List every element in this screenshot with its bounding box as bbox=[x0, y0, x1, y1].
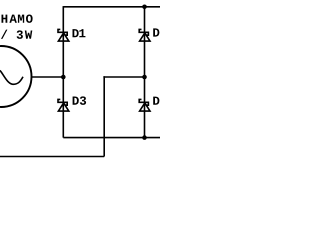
diode D1 bbox=[58, 29, 69, 41]
wire bottom rail DC- bbox=[63, 137, 160, 139]
diode D2 bbox=[139, 29, 150, 41]
wire AC2 riser bbox=[103, 76, 105, 156]
wire AC2 horizontal to right leg bbox=[103, 76, 144, 78]
junction top rail / right leg bbox=[142, 5, 147, 10]
wire AC2 bottom return bbox=[0, 156, 104, 158]
diode D3 bbox=[58, 99, 69, 111]
label D2 (cropped: D) bbox=[153, 28, 159, 36]
junction AC2 / right leg bbox=[142, 75, 147, 80]
label DYNAMO (cropped: HAMO) bbox=[2, 14, 33, 22]
label 6V / 3W (cropped: / 3W) bbox=[1, 30, 32, 39]
dynamo G1 bbox=[0, 46, 32, 107]
label D3 bbox=[73, 96, 87, 105]
diode D4 bbox=[139, 99, 150, 111]
junction bottom rail / right leg bbox=[142, 135, 147, 140]
label D4 (cropped: D) bbox=[153, 97, 159, 105]
wire top rail DC+ bbox=[63, 6, 160, 8]
label D1 bbox=[73, 29, 86, 37]
wire left bridge leg bbox=[62, 6, 64, 138]
wire dynamo to left leg (AC1) bbox=[32, 76, 64, 78]
junction AC1 / left leg bbox=[61, 75, 66, 80]
wire right bridge leg bbox=[144, 7, 146, 138]
